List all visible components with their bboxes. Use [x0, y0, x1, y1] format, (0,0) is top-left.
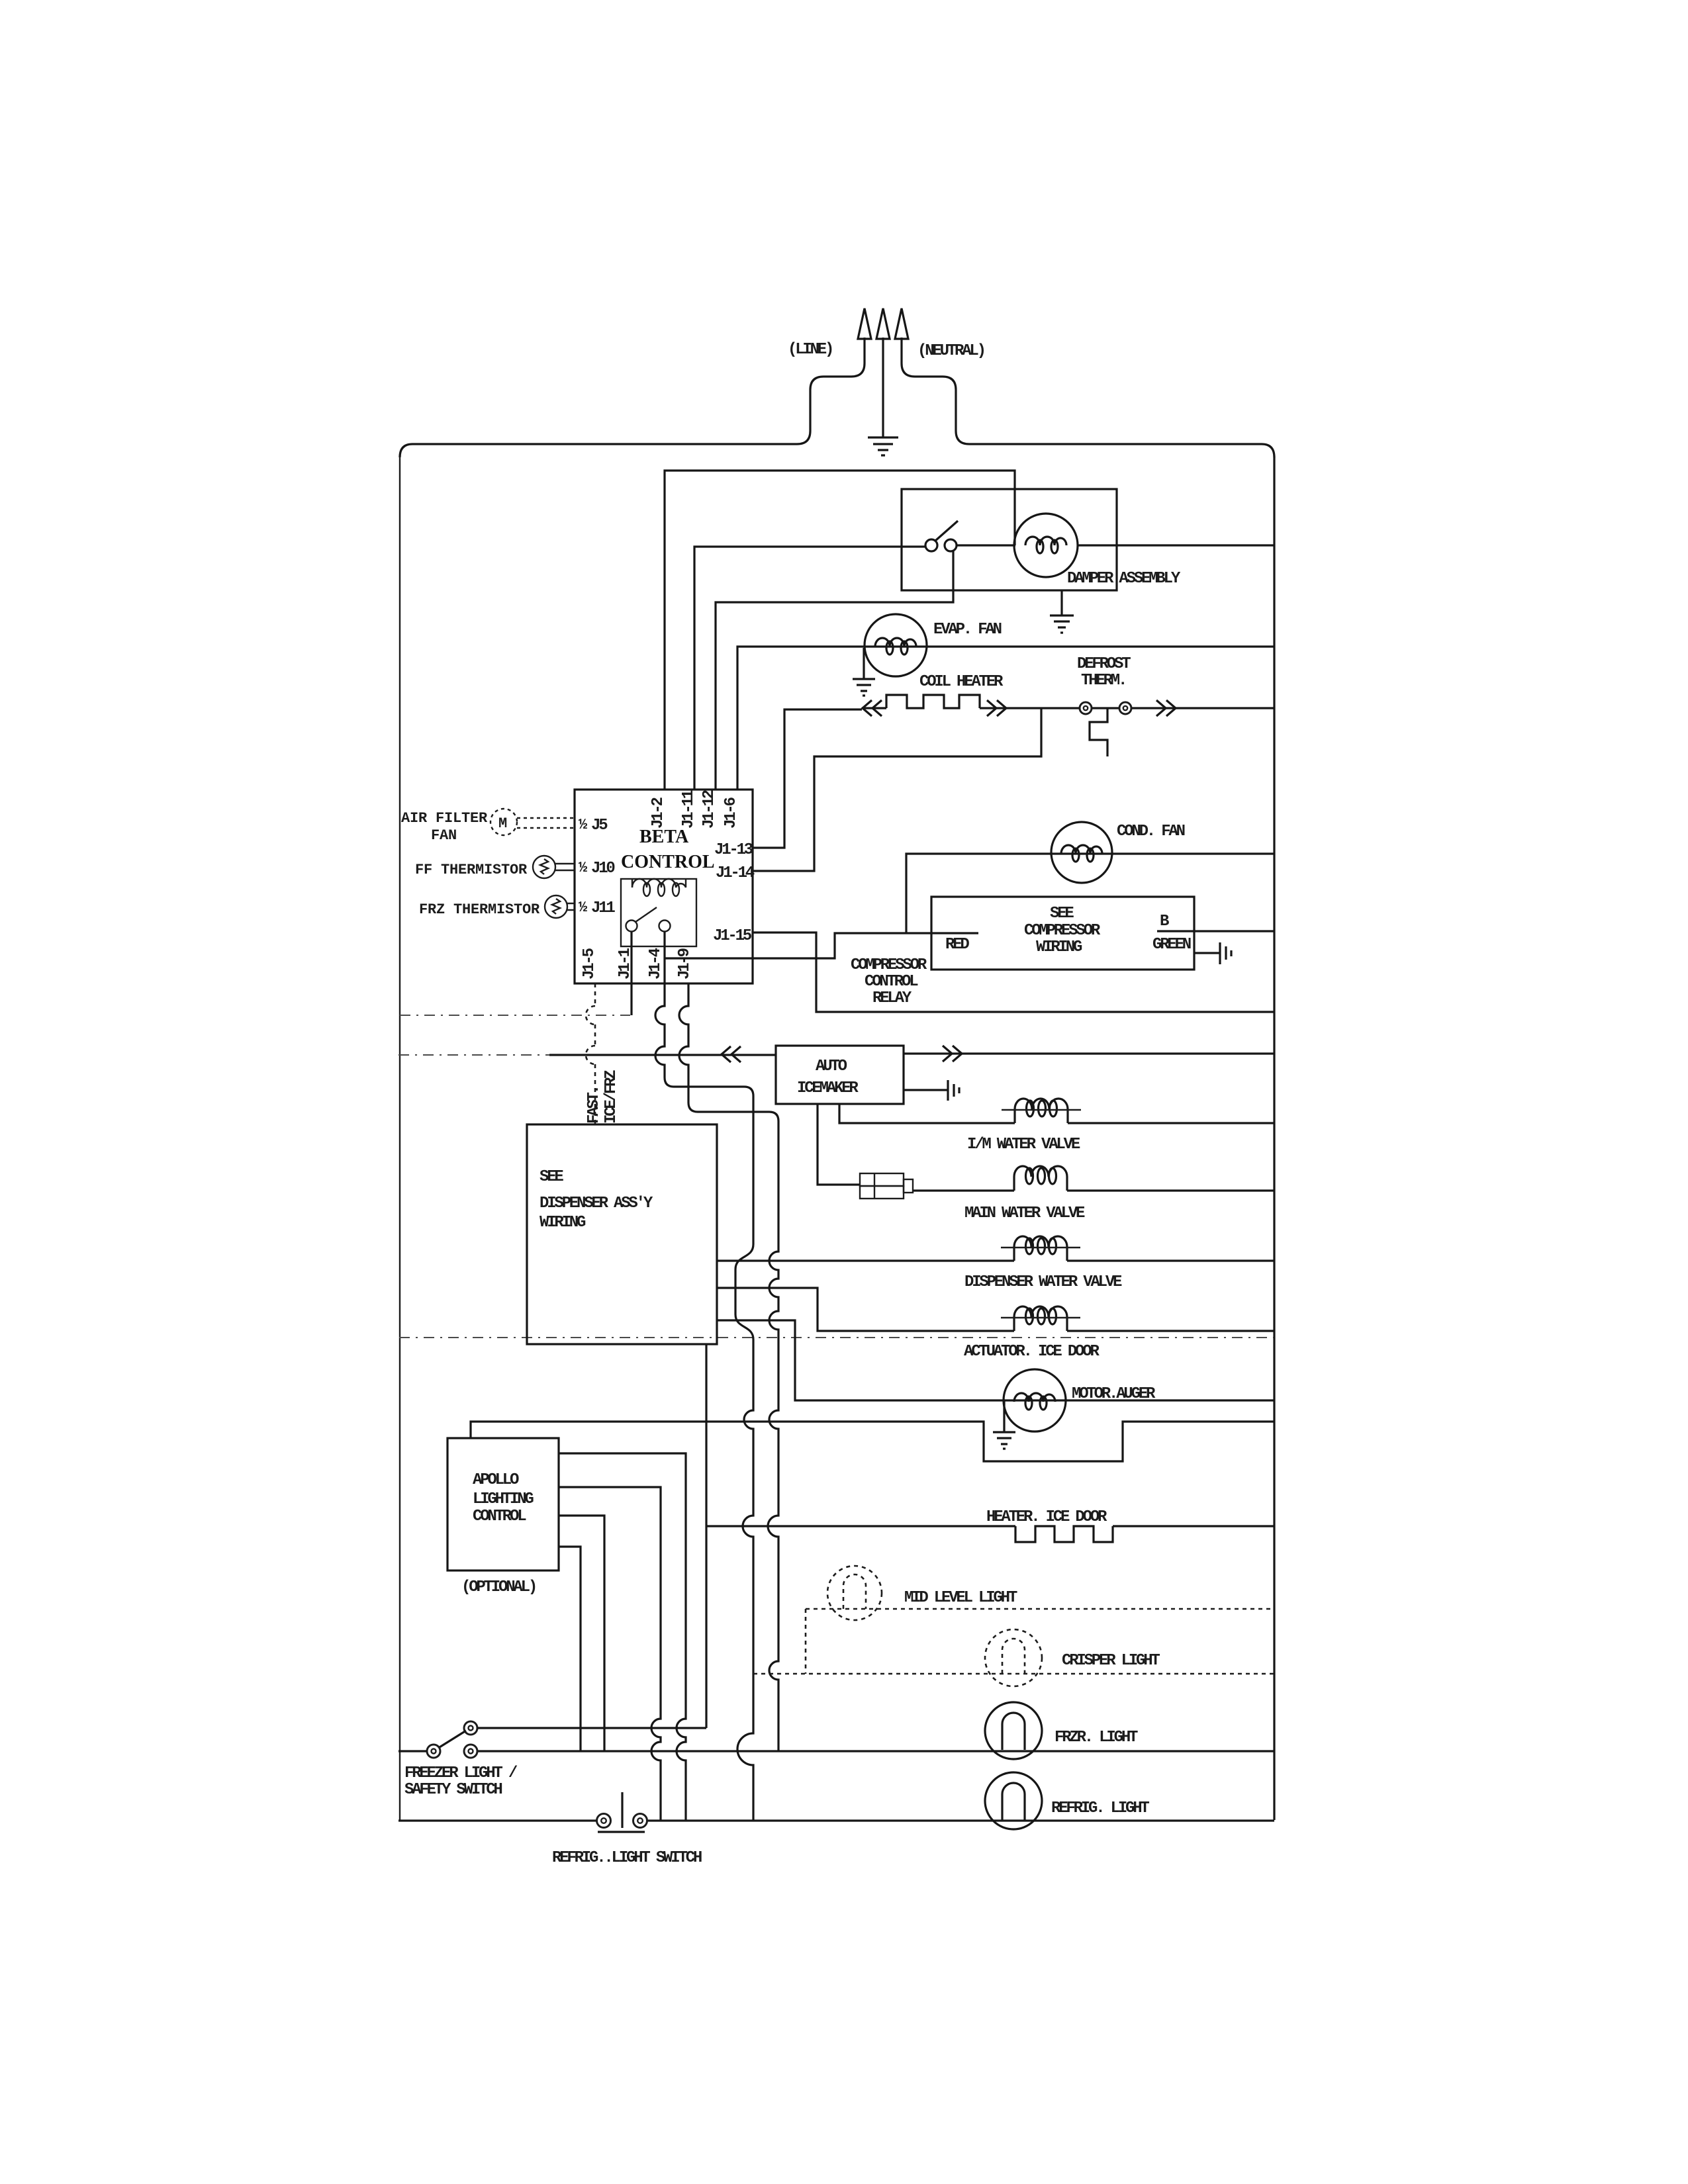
- SECTION: icemaker + valves: [399, 1046, 1274, 1728]
- svg-text:FAST.: FAST.: [585, 1087, 603, 1124]
- svg-text:THERM.: THERM.: [1081, 672, 1125, 690]
- svg-text:J1-11: J1-11: [680, 790, 698, 829]
- svg-text:MAIN WATER VALVE: MAIN WATER VALVE: [964, 1205, 1085, 1222]
- svg-text:RELAY: RELAY: [872, 989, 912, 1007]
- wire J1-9 run (hops, jog right, down to freezer light wire): [679, 983, 778, 1751]
- relay control relay box: [621, 879, 696, 946]
- svg-text:M: M: [498, 815, 507, 832]
- wire I/M water valve feed: [839, 1104, 1015, 1123]
- svg-text:ICE/FRZ: ICE/FRZ: [602, 1070, 620, 1124]
- wire relay to compressor control (J1-9 net): [665, 933, 978, 958]
- svg-text:COND. FAN: COND. FAN: [1117, 823, 1185, 841]
- wire main water valve feed from icemaker: [818, 1104, 860, 1185]
- svg-text:APOLLO: APOLLO: [473, 1471, 519, 1489]
- SECTION: lights + switches: [399, 1566, 1274, 1867]
- ground motor auger: [993, 1400, 1015, 1449]
- svg-text:COMPRESSOR: COMPRESSOR: [851, 956, 927, 974]
- wire left border bus: [399, 457, 400, 1821]
- apollo box APOLLO LIGHTING CONTROL: [447, 1438, 559, 1570]
- wire dash-dot divider lower full width: [399, 1337, 1274, 1338]
- svg-text:HEATER. ICE DOOR: HEATER. ICE DOOR: [986, 1508, 1107, 1526]
- wire freezer light: [477, 1750, 1274, 1752]
- connector arrows defrost right: [1156, 700, 1176, 716]
- wire heater ice door: [706, 1525, 1015, 1527]
- svg-text:(OPTIONAL): (OPTIONAL): [461, 1578, 536, 1596]
- wire I/M valve to right bus: [1068, 1122, 1274, 1124]
- wire mid level to crisper riser (dashed): [805, 1609, 807, 1674]
- switch refrig light (push): [597, 1814, 611, 1828]
- lamp mid level light (dashed): [827, 1566, 882, 1620]
- SECTION: main border: [399, 457, 1274, 1821]
- ground compressor (rotated): [1194, 942, 1231, 964]
- wire actuator ice door feed: [717, 1288, 1014, 1331]
- ground evap fan: [853, 648, 875, 696]
- svg-text:MOTOR.AUGER: MOTOR.AUGER: [1072, 1385, 1156, 1403]
- connector arrows icemaker right: [943, 1046, 962, 1062]
- switch freezer light / safety: [464, 1721, 477, 1735]
- svg-text:J5: J5: [591, 817, 608, 835]
- wire heater ice door to right bus: [1113, 1525, 1274, 1527]
- wire GREEN to right bus: [1157, 930, 1274, 932]
- svg-text:J11: J11: [591, 899, 615, 917]
- svg-text:REFRIG. LIGHT: REFRIG. LIGHT: [1051, 1799, 1149, 1817]
- SECTION: evap fan: [737, 614, 1274, 790]
- wire J1-5 dashed (fast ice/frz) with hops: [594, 983, 596, 1006]
- svg-text:GREEN: GREEN: [1152, 936, 1191, 954]
- wire apollo 1 to bottom bus: [559, 1453, 686, 1821]
- defrost thermostat terminals: [1080, 702, 1092, 714]
- wire J1-13 riser to coil heater wire: [753, 709, 862, 848]
- wire apollo 3 to freezer light wire: [559, 1516, 604, 1751]
- wire icemaker feed from left border (dash-dot then solid): [399, 1054, 549, 1056]
- svg-text:FREEZER LIGHT /: FREEZER LIGHT /: [404, 1764, 518, 1782]
- defrost thermostat bimetal: [1090, 708, 1107, 756]
- connector arrows coil heater right: [987, 700, 1006, 716]
- wire bottom bus left segment: [399, 1819, 596, 1821]
- svg-text:FAN: FAN: [431, 827, 457, 844]
- svg-text:½: ½: [579, 817, 587, 833]
- svg-text:BETA: BETA: [639, 827, 689, 847]
- SECTION: cond fan + compressor: [753, 822, 1274, 1012]
- svg-text:MID LEVEL LIGHT: MID LEVEL LIGHT: [904, 1589, 1017, 1607]
- connector inline (main water valve): [860, 1173, 904, 1186]
- lamp refrig light: [985, 1772, 1042, 1829]
- svg-text:WIRING: WIRING: [1036, 938, 1082, 956]
- svg-text:EVAP. FAN: EVAP. FAN: [933, 621, 1002, 639]
- svg-text:½: ½: [579, 860, 587, 876]
- svg-text:SAFETY SWITCH: SAFETY SWITCH: [404, 1781, 502, 1799]
- wire bottom bus right segment (refrig light wire): [647, 1819, 1274, 1821]
- solenoid actuator ice door coil: [1014, 1306, 1067, 1331]
- wire LINE lead with arrowhead: [400, 338, 865, 457]
- icemaker box AUTO ICEMAKER: [776, 1046, 904, 1104]
- wire safety switch top to heater riser: [477, 1727, 706, 1729]
- svg-text:ICEMAKER: ICEMAKER: [797, 1079, 859, 1097]
- heater ice door element: [1015, 1526, 1113, 1542]
- wire icemaker to right bus: [904, 1052, 1274, 1054]
- wire J1-4 run (hops, jog right, bulge, down to bottom bus): [655, 932, 753, 1821]
- svg-text:CONTROL: CONTROL: [621, 852, 715, 872]
- wire J1-6 feed through evap fan to right bus: [737, 647, 1274, 790]
- SECTION: power entry: [400, 308, 1274, 457]
- svg-text:J10: J10: [591, 860, 615, 878]
- svg-text:(NEUTRAL): (NEUTRAL): [917, 342, 984, 360]
- wire cond fan riser and feed to right bus: [906, 854, 1274, 933]
- wire J1-15 to right bus: [753, 933, 1274, 1012]
- wire crisper light (dashed): [753, 1673, 1274, 1675]
- wire connector to main valve coil: [913, 1189, 1014, 1191]
- svg-text:J1-2: J1-2: [649, 797, 667, 829]
- lamp crisper light (dashed): [985, 1629, 1042, 1686]
- svg-text:COMPRESSOR: COMPRESSOR: [1024, 922, 1101, 940]
- ground icemaker (rotated): [904, 1080, 959, 1101]
- svg-text:I/M WATER VALVE: I/M WATER VALVE: [967, 1136, 1080, 1154]
- connector arrows icemaker left: [722, 1046, 741, 1062]
- motor damper (coil in circle): [1014, 514, 1078, 577]
- wire earth lead with arrowhead: [882, 338, 884, 437]
- lamp freezer light: [985, 1702, 1042, 1759]
- solenoid I/M water valve coil: [1015, 1099, 1068, 1123]
- wire dispenser valve to right bus: [1067, 1259, 1274, 1261]
- svg-text:AIR FILTER: AIR FILTER: [401, 810, 488, 827]
- wire NEUTRAL lead with arrowhead: [902, 338, 1274, 457]
- solenoid main water valve coil: [1014, 1166, 1067, 1191]
- svg-text:J1-6: J1-6: [722, 797, 740, 829]
- wire J1-11 feed to damper switch: [694, 547, 925, 790]
- wire dash-dot divider upper (to J1-1): [400, 1015, 630, 1016]
- svg-text:LIGHTING: LIGHTING: [473, 1490, 534, 1508]
- switch damper (contacts and lever): [925, 539, 937, 551]
- wire actuator to right bus: [1067, 1330, 1274, 1332]
- heater ice door riser from dispenser box: [705, 1344, 707, 1728]
- svg-text:½: ½: [579, 899, 587, 916]
- svg-text:DEFROST: DEFROST: [1077, 655, 1131, 673]
- svg-text:J1-13: J1-13: [714, 841, 753, 859]
- svg-text:J1-5: J1-5: [581, 948, 598, 979]
- wire J1-1 riser to dash-dot divider: [630, 932, 632, 1015]
- wire damper switch to motor coil: [957, 544, 1015, 546]
- svg-text:SEE: SEE: [1050, 905, 1074, 923]
- ground main earth: [868, 437, 898, 455]
- motor evap fan (coil in circle): [865, 614, 927, 676]
- svg-text:CRISPER LIGHT: CRISPER LIGHT: [1062, 1652, 1160, 1670]
- wire left border to safety switch: [399, 1750, 427, 1752]
- SECTION: dispenser box + apollo: [447, 932, 778, 1821]
- svg-text:WIRING: WIRING: [539, 1214, 586, 1232]
- compressor box SEE COMPRESSOR WIRING: [931, 897, 1194, 970]
- svg-text:AUTO: AUTO: [816, 1058, 847, 1075]
- wire damper motor to right bus: [1078, 544, 1274, 546]
- SECTION: beta control: [401, 790, 978, 983]
- svg-text:DISPENSER WATER VALVE: DISPENSER WATER VALVE: [964, 1273, 1122, 1291]
- svg-text:DAMPER ASSEMBLY: DAMPER ASSEMBLY: [1067, 570, 1181, 588]
- svg-text:FRZ THERMISTOR: FRZ THERMISTOR: [419, 901, 540, 918]
- solenoid dispenser water valve coil: [1014, 1236, 1067, 1261]
- SECTION: coil heater + defrost: [753, 655, 1274, 871]
- svg-text:J1-14: J1-14: [716, 864, 755, 882]
- ground damper: [1050, 590, 1074, 633]
- dispenser box SEE DISPENSER ASS'Y WIRING: [527, 1124, 717, 1344]
- svg-text:FF THERMISTOR: FF THERMISTOR: [415, 862, 528, 878]
- heater coil heater element: [886, 695, 980, 708]
- connector arrows coil heater left: [863, 700, 882, 716]
- svg-text:DISPENSER ASS'Y: DISPENSER ASS'Y: [539, 1195, 653, 1212]
- wire dashed pair M to J5: [517, 818, 575, 828]
- wire auger return with detour around ground: [471, 1422, 1274, 1461]
- svg-text:REFRIG..LIGHT SWITCH: REFRIG..LIGHT SWITCH: [552, 1849, 702, 1867]
- wire mid level light (dashed): [806, 1608, 1274, 1610]
- relay switch contacts and lever: [626, 921, 637, 932]
- svg-text:ACTUATOR. ICE DOOR: ACTUATOR. ICE DOOR: [964, 1343, 1100, 1361]
- svg-text:RED: RED: [945, 936, 969, 954]
- wire apollo 2 to bottom bus: [559, 1487, 661, 1821]
- wire coil heater left segment: [862, 707, 886, 709]
- wire J1-14 riser joining coil heater wire: [753, 708, 1041, 871]
- wire dispenser water valve feed from dispenser box: [717, 1259, 1014, 1261]
- wire J1-12 return from damper switch: [716, 551, 953, 790]
- SECTION: damper: [665, 471, 1274, 790]
- svg-text:FRZR. LIGHT: FRZR. LIGHT: [1055, 1729, 1138, 1747]
- svg-text:J1-12: J1-12: [700, 790, 718, 829]
- relay coil: [632, 879, 686, 887]
- svg-text:CONTROL: CONTROL: [865, 973, 918, 991]
- svg-text:CONTROL: CONTROL: [473, 1508, 526, 1525]
- motor auger (coil in circle): [1004, 1369, 1066, 1432]
- svg-text:(LINE): (LINE): [788, 341, 832, 359]
- svg-text:SEE: SEE: [539, 1168, 563, 1186]
- svg-text:J1-4: J1-4: [647, 948, 665, 979]
- svg-text:J1-9: J1-9: [676, 948, 694, 979]
- wire J1-2 feed to damper box: [665, 471, 1015, 790]
- svg-text:J1-15: J1-15: [713, 927, 752, 945]
- wire apollo 4 to freezer light wire: [559, 1547, 581, 1751]
- damper assembly box: [902, 489, 1117, 590]
- wire right border bus (neutral side): [1273, 457, 1275, 1820]
- wire coil heater right segment to right bus: [980, 707, 1274, 709]
- motor cond fan (coil in circle): [1051, 822, 1112, 883]
- wire main valve to right bus: [1067, 1189, 1274, 1191]
- svg-text:COIL HEATER: COIL HEATER: [919, 673, 1004, 691]
- wire motor auger feed: [717, 1320, 1274, 1400]
- control board BETA CONTROL box: [575, 790, 753, 983]
- motor M air filter fan (dashed circle): [491, 809, 517, 835]
